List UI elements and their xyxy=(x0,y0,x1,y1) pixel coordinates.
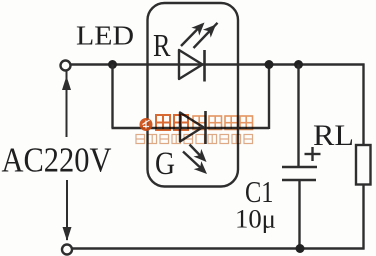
wire right rail lower xyxy=(362,185,364,250)
node B junction dot xyxy=(265,60,274,69)
wire right rail upper xyxy=(362,64,364,146)
watermark text line 1 (orange glyph blocks) xyxy=(156,115,188,130)
svg-text:RL: RL xyxy=(313,119,354,152)
resistor RL body xyxy=(356,145,371,185)
capacitor C1 top lead xyxy=(297,65,299,168)
wire bottom rail xyxy=(73,247,365,249)
svg-text:AC220V: AC220V xyxy=(2,141,112,180)
watermark logo circle xyxy=(140,118,153,131)
watermark text line 2 (small orange glyph blocks) xyxy=(136,135,253,144)
node C junction dot xyxy=(294,60,303,69)
AC source arrowhead up xyxy=(62,76,71,90)
node D junction dot xyxy=(296,244,305,253)
node A junction dot xyxy=(108,60,117,69)
AC source arrow line lower xyxy=(66,180,68,240)
wire G branch riser xyxy=(268,65,270,130)
wire G branch horizontal xyxy=(112,127,270,129)
svg-text:10μ: 10μ xyxy=(235,205,276,234)
svg-text:G: G xyxy=(155,146,175,182)
terminal bottom (open circle) xyxy=(62,245,72,255)
svg-text:LED: LED xyxy=(76,20,134,51)
capacitor C1 bottom lead xyxy=(298,180,300,249)
wire node A down leg xyxy=(111,65,113,129)
AC source arrowhead down xyxy=(63,227,72,241)
AC source arrow line upper xyxy=(66,72,68,138)
capacitor C1 plates xyxy=(282,166,317,169)
wire top rail xyxy=(71,63,365,65)
LED R (red) xyxy=(179,23,218,82)
terminal top (open circle) xyxy=(61,61,71,71)
LED package outline (rounded rect) xyxy=(148,3,239,187)
LED G (green) xyxy=(180,111,207,174)
svg-text:R: R xyxy=(153,28,171,63)
capacitor C1 polarity plus sign xyxy=(305,153,321,155)
